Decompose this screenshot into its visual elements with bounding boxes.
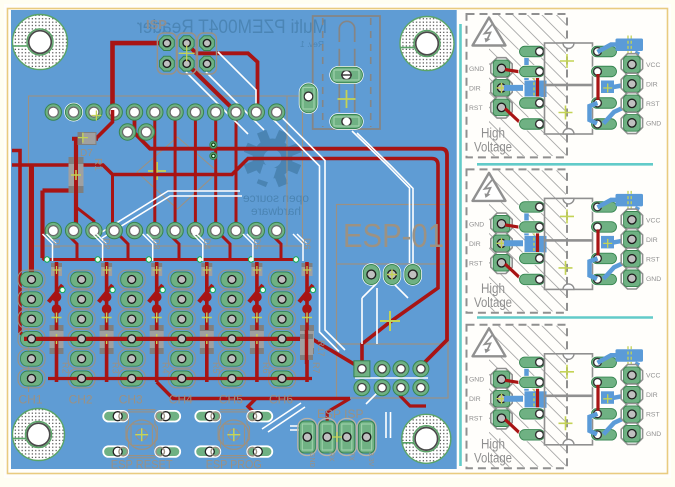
svg-text:GND: GND — [646, 120, 661, 127]
svg-text:DIR: DIR — [469, 85, 481, 92]
module 3 opto pin right y72 — [590, 376, 617, 389]
module 2 right pad VCC — [621, 209, 660, 230]
resistor R1 — [69, 157, 104, 193]
grid holes over buses — [28, 335, 287, 383]
module 3 right pad GND — [621, 423, 661, 444]
module 1 optocoupler body 1 — [545, 43, 593, 85]
mounting hole top-left — [13, 15, 68, 70]
silkscreen diamond (buzzer footprint) — [137, 137, 218, 209]
mounting hole top-right — [400, 17, 454, 71]
module 2 opto pin right y72 — [590, 220, 617, 233]
svg-text:ESP PROG: ESP PROG — [206, 458, 262, 472]
silkscreen verticals — [29, 96, 288, 392]
module 3 right pad VCC — [621, 365, 660, 386]
svg-text:DIR: DIR — [646, 81, 658, 88]
module 2 right pad DIR — [621, 229, 658, 250]
svg-text:R3: R3 — [111, 362, 121, 374]
PCB board copper pour (bottom layer) — [11, 10, 457, 469]
module 2 red trace right — [596, 229, 599, 255]
module 2 red traces left — [505, 225, 521, 279]
module 1 smd resistor (blue) — [616, 36, 644, 55]
module 2 smd resistor (blue) — [616, 191, 644, 210]
module 1 right pad DIR — [621, 73, 658, 94]
resistor R17 — [300, 330, 326, 364]
module 2 opto pin right y103 — [590, 252, 617, 265]
wire: bottom horizontal bus — [157, 382, 350, 416]
wire: D7 to row1 — [96, 110, 113, 139]
channel 3 driver: diode/resistor stack — [143, 234, 171, 382]
module 1 left pad GND — [469, 58, 512, 79]
extra pads below row1 — [119, 124, 154, 140]
svg-text:D1: D1 — [52, 238, 62, 250]
module 3 opto pin left y52 — [518, 356, 545, 369]
svg-text:D6: D6 — [302, 238, 312, 250]
svg-text:D4: D4 — [202, 238, 212, 250]
module 1 opto pin right y124 — [590, 118, 617, 131]
module 1 blue pad right — [601, 81, 636, 101]
svg-text:DIR: DIR — [646, 392, 658, 399]
ESP-01 pads — [362, 263, 422, 285]
channel 5 driver: diode/resistor stack — [243, 234, 271, 382]
module 2 blue pad right — [601, 236, 636, 256]
module 1 right pad RST — [621, 93, 659, 114]
module 1 blue pad left — [525, 72, 547, 103]
module 1 opto pin right y103 — [590, 97, 617, 110]
svg-text:RX: RX — [328, 452, 335, 462]
module 1 high voltage label — [474, 126, 512, 155]
open source hardware logo (mirrored silkscreen) — [243, 130, 309, 218]
module 1 blue traces right — [590, 45, 639, 124]
module 1 right pad GND — [621, 112, 661, 133]
svg-text:High: High — [481, 126, 505, 141]
module 3 opto pin left y103 — [518, 407, 545, 420]
svg-text:GND: GND — [469, 221, 484, 228]
pin header row J2 (middle) — [45, 222, 285, 238]
wire: verticals through diamond — [153, 112, 156, 231]
module 2 left pad RST — [469, 252, 512, 273]
wire: R1 vertical trace — [74, 137, 78, 231]
module 3 right pad DIR — [621, 384, 658, 405]
svg-text:ESP-01: ESP-01 — [343, 217, 444, 254]
module 1 opto pin left y124 — [518, 118, 545, 131]
module 1 left pad RST — [469, 97, 512, 118]
module 2 high voltage label — [474, 281, 512, 310]
module 3 opto pin left y72 — [518, 376, 545, 389]
module 1 opto pin left y72 — [518, 65, 545, 78]
svg-text:CH4: CH4 — [169, 393, 193, 407]
svg-text:GND: GND — [469, 66, 484, 73]
wire: white top-layer bundle 1 — [102, 52, 428, 438]
svg-text:CH5: CH5 — [219, 393, 243, 407]
svg-text:R4: R4 — [161, 362, 171, 374]
svg-text:RST: RST — [646, 256, 660, 263]
module 1 right pad VCC — [621, 54, 660, 75]
svg-text:CH3: CH3 — [119, 393, 143, 407]
svg-text:hardware: hardware — [251, 204, 301, 218]
svg-text:R17: R17 — [316, 340, 326, 357]
module 3 opto pin right y124 — [590, 428, 617, 441]
channel 6 driver: diode/resistor stack — [293, 234, 321, 382]
module 1 red trace right — [596, 74, 599, 100]
wire: col1 feed vertical — [29, 166, 34, 280]
module 1 opto pin left y52 — [518, 45, 545, 58]
module 3 blue pad right — [601, 391, 636, 411]
svg-text:RST: RST — [469, 260, 483, 267]
board title text (mirrored silkscreen) — [136, 17, 327, 49]
svg-text:VCC: VCC — [646, 217, 660, 224]
svg-text:VCC: VCC — [646, 373, 660, 380]
module 1 opto pin left y103 — [518, 97, 545, 110]
svg-text:High: High — [481, 436, 505, 451]
module 3 right pad RST — [621, 404, 659, 425]
channel labels — [19, 393, 294, 407]
module 2 blue pad left — [525, 227, 547, 258]
separator line 1 — [477, 163, 653, 166]
module 1 opto pin right y72 — [590, 65, 617, 78]
diode D7 — [72, 111, 101, 160]
board edge / keepout vertical line — [459, 24, 462, 466]
svg-text:DIR: DIR — [469, 396, 481, 403]
isolation module 2: dashed outline — [467, 169, 568, 312]
silkscreen outline around headers — [29, 96, 303, 246]
wire: bus to RX pad — [327, 399, 350, 425]
wire: trace line B around ESP-01 — [12, 159, 438, 369]
module 2 opto pin left y52 — [518, 200, 545, 213]
module 2 optocoupler body 2 — [545, 241, 593, 290]
pin header row J1 (top) — [45, 103, 285, 122]
module 2 right pad RST — [621, 248, 659, 269]
svg-text:RST: RST — [646, 412, 660, 419]
module 3 optocoupler body 1 — [545, 354, 593, 396]
svg-text:RST: RST — [646, 101, 660, 108]
module 2 blue traces left — [504, 207, 531, 243]
module 3 smd resistor (blue) — [616, 346, 644, 365]
svg-text:VCC: VCC — [646, 62, 660, 69]
module 2 optocoupler body 1 — [545, 198, 593, 240]
pushbutton ESP PROG — [195, 410, 272, 472]
fuse footprint outline F1 — [313, 16, 380, 129]
module 2 left pad GND — [469, 213, 512, 234]
module 3 blue pad left — [525, 382, 547, 413]
module 1 opto pin right y52 — [590, 45, 617, 58]
channel pad grid CH1-CH6 — [18, 270, 296, 388]
module 2 opto pin left y72 — [518, 220, 545, 233]
module 3 high voltage label — [474, 436, 512, 465]
svg-text:RST: RST — [469, 416, 483, 423]
channel 2 driver: diode/resistor stack — [93, 234, 121, 382]
module 2 left pad DIR — [469, 233, 512, 254]
svg-text:GND: GND — [646, 276, 661, 283]
mounting hole bottom-right — [402, 414, 451, 463]
svg-text:R6: R6 — [261, 362, 271, 374]
svg-text:TX: TX — [347, 452, 354, 461]
module 3 opto pin right y52 — [590, 356, 617, 369]
module 3 red trace right — [596, 385, 599, 411]
fuse F1 pads — [329, 66, 363, 130]
svg-text:GND: GND — [308, 452, 315, 468]
module 2 blue traces right — [590, 200, 639, 279]
wire: ISP lower pad diagonal — [187, 64, 236, 112]
svg-text:R2: R2 — [61, 362, 71, 374]
svg-text:D2: D2 — [102, 238, 112, 250]
svg-text:Voltage: Voltage — [474, 295, 512, 310]
module 2 opto pin right y52 — [590, 200, 617, 213]
svg-text:R7: R7 — [311, 362, 321, 374]
svg-text:DIR: DIR — [469, 241, 481, 248]
svg-text:R5: R5 — [211, 362, 221, 374]
module 2 opto pin right y124 — [590, 273, 617, 286]
module 3 left pad RST — [469, 408, 512, 429]
SMD pad left of fuse — [299, 83, 318, 114]
svg-text:D5: D5 — [252, 238, 262, 250]
channel 1 driver: diode/resistor stack — [43, 234, 71, 382]
svg-text:Voltage: Voltage — [474, 140, 512, 155]
isolation module 1: dashed outline — [467, 14, 568, 157]
module 3 left pad DIR — [469, 388, 512, 409]
wire: left edge vertical to row4 bus — [12, 151, 26, 339]
module 3 opto pin right y103 — [590, 407, 617, 420]
isolation module 3: warning triangle — [473, 328, 506, 356]
module 1 red traces left — [505, 70, 521, 124]
serial connector pads — [298, 419, 376, 468]
module 2 opto pin left y103 — [518, 252, 545, 265]
svg-text:GND: GND — [469, 377, 484, 384]
ISP header pads — [157, 33, 216, 74]
separator line 2 — [477, 316, 653, 319]
wire: grid horizontal bus row6 — [48, 377, 312, 380]
module 3 blue traces right — [590, 355, 639, 434]
board origin cross — [380, 311, 400, 331]
wire: sub-row2 bus — [43, 235, 299, 262]
module 2 right pad GND — [621, 268, 661, 289]
mounting hole bottom-left — [13, 409, 65, 461]
wire: bottom right to ESP ISP — [312, 339, 362, 369]
svg-text:D3: D3 — [152, 238, 162, 250]
svg-text:open source: open source — [243, 191, 309, 205]
module 1 left pad DIR — [469, 77, 512, 98]
channel 4 driver: diode/resistor stack — [193, 234, 221, 382]
svg-text:ESP RESET: ESP RESET — [111, 458, 174, 472]
wire: grid horizontal bus row4 — [24, 337, 312, 341]
module 1 blue traces left — [504, 52, 531, 88]
wire: row2 pad feeds — [76, 207, 94, 231]
ESP ISP header pads — [354, 361, 429, 396]
svg-text:R1: R1 — [92, 158, 103, 171]
wire: upper trace bundle across board (line A) — [135, 112, 448, 369]
wire: header pad down — [400, 388, 426, 406]
svg-text:DIR: DIR — [646, 237, 658, 244]
wire: ISP row trace to right — [187, 43, 258, 105]
svg-text:CH1: CH1 — [19, 393, 43, 407]
module 3 red traces left — [505, 380, 521, 434]
isolation module 1: warning triangle — [473, 18, 506, 46]
svg-text:High: High — [481, 281, 505, 296]
ISP origin cross — [179, 45, 195, 61]
isolation module 3: dashed outline — [467, 325, 568, 468]
wire: lower-left branch — [43, 191, 77, 259]
isolation module 2: warning triangle — [473, 173, 506, 201]
svg-text:Voltage: Voltage — [474, 450, 512, 465]
module 3 opto pin left y124 — [518, 428, 545, 441]
svg-text:CH2: CH2 — [69, 393, 93, 407]
ESP-01 module outline — [337, 205, 449, 399]
wire: ISP to left header trace — [113, 43, 167, 106]
module 2 opto pin left y124 — [518, 273, 545, 286]
svg-text:CH6: CH6 — [269, 393, 293, 407]
pushbutton ESP RESET — [103, 410, 180, 472]
via pads mid board — [210, 141, 217, 159]
module 3 left pad GND — [469, 369, 512, 390]
svg-text:RST: RST — [469, 105, 483, 112]
module 3 blue traces left — [504, 362, 531, 398]
svg-text:GND: GND — [646, 431, 661, 438]
svg-text:3.3V: 3.3V — [367, 452, 374, 467]
module 1 optocoupler body 2 — [545, 86, 593, 135]
module 3 optocoupler body 2 — [545, 396, 593, 445]
svg-text:ISP: ISP — [146, 17, 167, 32]
